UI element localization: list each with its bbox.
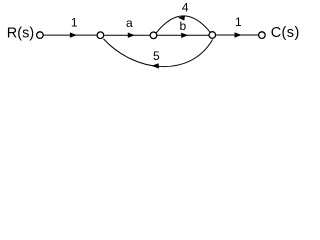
svg-text:4: 4 [182, 1, 189, 15]
node N2 [97, 32, 104, 39]
node N5 [259, 32, 266, 39]
arrowhead on branch b [181, 33, 188, 38]
wire branch gain a from N2 to N3 [104, 34, 150, 36]
svg-text:1: 1 [235, 15, 242, 29]
node N1 [37, 32, 44, 39]
svg-text:5: 5 [153, 49, 160, 63]
node N4 [209, 32, 216, 39]
svg-text:1: 1 [71, 16, 78, 30]
wire branch gain 1 from N1 to N2 [44, 34, 97, 36]
svg-text:b: b [180, 19, 187, 33]
wire feedback arc gain 5 from N4 to N2 (bottom) [104, 39, 213, 67]
wire feedback arc gain 4 from N4 to N3 (top) [156, 16, 210, 33]
svg-text:a: a [126, 16, 133, 30]
svg-text:C(s): C(s) [271, 25, 300, 41]
wire branch gain b from N3 to N4 [157, 34, 208, 36]
wire branch gain 1 from N4 to N5 [216, 34, 258, 36]
arrowhead on feedback arc 4 (pointing left) [178, 15, 185, 20]
arrowhead on output branch 1 [235, 32, 242, 37]
arrowhead on branch a [128, 33, 135, 38]
arrowhead on feedback arc 5 (pointing left) [152, 63, 159, 68]
arrowhead on branch 1 [70, 32, 77, 37]
node N3 [150, 32, 157, 39]
svg-text:R(s): R(s) [7, 25, 34, 41]
